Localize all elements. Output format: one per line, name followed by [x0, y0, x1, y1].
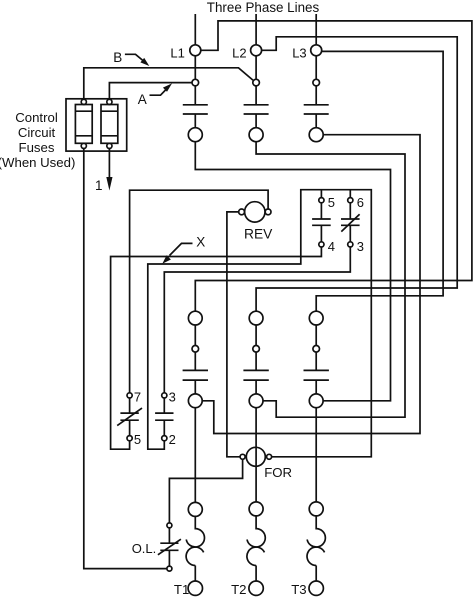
node L3 [315, 56, 317, 80]
wire REV pole3 output to T1 junction [202, 135, 420, 434]
contact 7/5 FOR aux (N.C.) [117, 393, 142, 441]
wire REV pole1 output to T3 junction [195, 142, 390, 401]
contactor pole 3 (FOR) [304, 311, 329, 407]
svg-text:A: A [138, 92, 147, 107]
wire L1 tap to FOR pole 1 (right bus) [195, 21, 472, 311]
svg-text:Circuit: Circuit [18, 125, 56, 140]
overload heater T3 [307, 502, 325, 596]
svg-text:L2: L2 [232, 46, 246, 61]
contactor pole L2 (REV) [244, 86, 269, 142]
wire FOR pole3 to T3 [315, 408, 317, 502]
wire contact7 top to REV coil right terminal [130, 190, 269, 393]
svg-text:5: 5 [134, 432, 141, 447]
svg-text:FOR: FOR [264, 465, 292, 480]
terminal L2 [251, 45, 262, 56]
svg-text:4: 4 [328, 239, 335, 254]
label B with arrow [113, 50, 149, 66]
svg-text:T2: T2 [231, 582, 246, 597]
svg-text:B: B [113, 50, 122, 65]
svg-text:T1: T1 [174, 582, 189, 597]
terminal L1 [190, 45, 201, 56]
overload heater T1 [186, 502, 204, 595]
wire A (fuse to L1 node) [109, 83, 192, 100]
overload heater T2 [247, 502, 265, 596]
contact 6/3 REV aux (N.C.) [341, 190, 360, 247]
contact O.L. overload (N.C.) [158, 523, 181, 571]
wire L2 tap to FOR pole 2 (right bus) [256, 37, 457, 311]
label A with arrow [138, 83, 172, 107]
node L2 [255, 56, 257, 80]
contactor pole L3 (REV) [304, 86, 329, 142]
wire L1 supply stub [194, 14, 196, 45]
wire X line: REV terminal 4 to contact5 bottom [111, 247, 322, 449]
svg-text:Fuses: Fuses [19, 140, 55, 155]
svg-text:X: X [196, 235, 205, 250]
fuse F2 [101, 99, 118, 148]
contactor pole 1 (FOR) [183, 311, 208, 407]
wire REV terminal 3 to contact3 top [164, 247, 350, 393]
terminal L3 [311, 45, 322, 56]
wire REV pole2 output to T2 junction [256, 142, 405, 418]
svg-text:O.L.: O.L. [132, 541, 157, 556]
svg-text:6: 6 [357, 195, 364, 210]
svg-text:(When Used): (When Used) [0, 155, 75, 170]
wire L2 supply stub [255, 14, 257, 45]
svg-text:Three Phase Lines: Three Phase Lines [207, 0, 320, 15]
wire control return (left fuse to OL bottom) [84, 149, 167, 569]
node L1 [194, 56, 196, 80]
fuse F1 [75, 99, 92, 148]
wire FOR coil right terminal to REV box top (and down to contact2 bottom) [148, 190, 371, 457]
svg-text:2: 2 [169, 432, 176, 447]
svg-text:1: 1 [95, 178, 103, 193]
wire REV coil left terminal to FOR coil left terminal [227, 212, 240, 457]
wire FOR pole2 to T2 (through FOR coil) [255, 408, 257, 502]
coil FOR [240, 447, 272, 466]
svg-text:5: 5 [328, 195, 335, 210]
contact 3/2 FOR aux (N.O.) [155, 393, 173, 441]
wire L3 tap to FOR pole 3 (right bus) [316, 51, 443, 311]
contactor pole 2 (FOR) [243, 311, 268, 407]
svg-text:T3: T3 [291, 582, 306, 597]
contact 5/4 REV aux (N.O.) [312, 190, 331, 247]
svg-text:3: 3 [357, 239, 364, 254]
label X with arrow [162, 235, 205, 264]
wire 1 (control feed off-page arrow) [106, 149, 112, 191]
svg-text:REV: REV [244, 226, 273, 241]
coil REV [239, 202, 271, 222]
svg-text:7: 7 [134, 389, 141, 404]
wire OL top to FOR coil left terminal [169, 459, 242, 523]
contactor pole L1 (REV) [183, 86, 208, 142]
wire L3 supply stub [315, 14, 317, 45]
svg-text:L3: L3 [292, 46, 306, 61]
fuse box [66, 99, 127, 151]
label Control Circuit Fuses (When Used) [0, 110, 75, 170]
wire FOR pole1 to T1 [194, 408, 196, 503]
svg-text:3: 3 [169, 389, 176, 404]
svg-text:Control: Control [15, 110, 58, 125]
wire B (fuse to L2 node) [84, 68, 253, 100]
svg-text:L1: L1 [170, 46, 184, 61]
